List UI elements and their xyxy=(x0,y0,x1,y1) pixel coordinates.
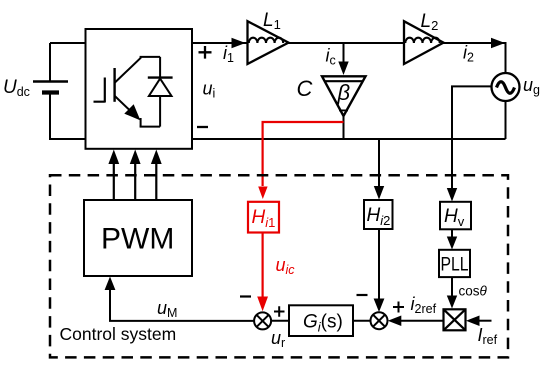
PWM block xyxy=(84,200,192,276)
arrow into Hi1 (red) xyxy=(258,187,267,200)
block Hi1 (red) xyxy=(248,202,279,233)
label uM xyxy=(157,298,177,320)
block Hv xyxy=(440,202,471,230)
arrow into PLL xyxy=(447,237,457,250)
svg-text:Gi(s): Gi(s) xyxy=(303,312,343,335)
label i1 xyxy=(223,43,234,65)
inductor L1 xyxy=(248,21,289,64)
arrow into summer2 right xyxy=(388,316,402,327)
label Udc xyxy=(3,77,30,99)
wire: Hv to PLL xyxy=(451,229,453,238)
wire: L2 to grid corner xyxy=(444,43,506,73)
label - (inverter output) xyxy=(197,126,208,128)
arrow uic into summer1 (red) xyxy=(257,297,268,312)
diode D1 xyxy=(148,57,173,127)
arrow into multiplier xyxy=(447,296,457,309)
label L2 xyxy=(421,11,439,33)
wire: battery bottom to inverter xyxy=(50,93,86,140)
wire: Hi1 to summer1 (red) xyxy=(262,233,264,301)
wire: red tap to Hi1 xyxy=(263,122,344,186)
wire: Iref into multiplier xyxy=(477,320,492,322)
block PLL xyxy=(439,250,470,277)
svg-text:Control system: Control system xyxy=(60,324,177,344)
control system dashed border xyxy=(50,175,508,357)
capacitor C (beta block) xyxy=(322,76,366,116)
label L1 xyxy=(263,10,281,32)
wire: summer1 to PWM xyxy=(110,288,254,321)
inverter block outline xyxy=(86,29,193,149)
label beta xyxy=(337,80,351,105)
label ug xyxy=(523,75,540,97)
label Iref xyxy=(478,325,498,347)
label - (summer1 top) xyxy=(240,295,251,297)
label cos(theta) xyxy=(459,284,488,299)
label ur xyxy=(271,328,285,350)
wire: battery top to inverter xyxy=(50,43,86,82)
wire: beta block to bottom rail xyxy=(343,116,345,139)
wire: ac source to bottom rail xyxy=(505,101,507,139)
wire: multiplier to summer2 xyxy=(399,320,444,322)
wire: IGBT emitter to diode bottom xyxy=(140,126,161,128)
node ic branch wire xyxy=(343,43,345,64)
label ic xyxy=(326,46,336,68)
label ui xyxy=(203,78,216,100)
multiplier block xyxy=(444,309,466,330)
label - (summer2 top) xyxy=(357,294,368,296)
svg-text:C: C xyxy=(297,76,313,101)
inductor L2 xyxy=(404,21,444,64)
label + (summer2 right) xyxy=(393,302,404,313)
dc source Udc battery plates xyxy=(33,82,68,93)
arrow into Hv xyxy=(447,188,457,202)
arrow into summer2 xyxy=(374,299,385,313)
summing junction 1 xyxy=(254,312,271,329)
block Hi2 xyxy=(364,200,393,229)
block Gi(s) xyxy=(289,305,353,336)
label i2ref xyxy=(411,294,437,316)
arrow ic xyxy=(338,62,348,76)
summing junction 2 xyxy=(371,312,388,329)
label uic (red) xyxy=(276,255,296,277)
svg-text:PWM: PWM xyxy=(101,223,174,256)
arrow into Hi2 xyxy=(374,186,384,200)
wires: PWM to inverter gates xyxy=(114,163,157,200)
wire: Hi2 to summer2 xyxy=(378,229,380,300)
arrow into PWM bottom xyxy=(105,277,116,291)
wire: bottom rail xyxy=(192,138,506,140)
svg-text:cosθ: cosθ xyxy=(459,284,488,299)
wire: L1 to L2 xyxy=(289,42,405,44)
label + (summer1 right) xyxy=(274,306,285,317)
label Control system xyxy=(60,324,177,344)
wire: inverter to L1 xyxy=(192,42,247,44)
ac source ug xyxy=(492,73,520,101)
wire: IGBT collector to diode top xyxy=(140,56,161,58)
label + (inverter output) xyxy=(199,46,212,59)
arrow into multiplier right xyxy=(466,316,480,327)
wire: summer2 to Gi xyxy=(353,320,371,322)
transistor Q1 (IGBT) xyxy=(94,57,141,127)
arrow i1 xyxy=(232,38,246,48)
wire: Hi2 tap xyxy=(378,139,380,188)
label i2 xyxy=(463,43,474,65)
wire: PLL to multiplier xyxy=(451,277,453,297)
wire: Hv tap xyxy=(452,86,492,188)
svg-text:PLL: PLL xyxy=(441,255,469,276)
wire: Gi to summer1 xyxy=(271,320,289,322)
arrows into inverter xyxy=(108,150,161,165)
svg-text:β: β xyxy=(337,80,351,105)
label C xyxy=(297,76,313,101)
arrow i2 xyxy=(491,38,505,48)
